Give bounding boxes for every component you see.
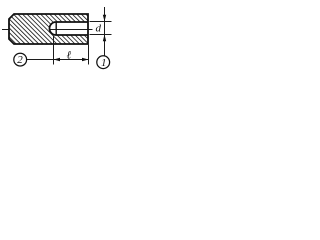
leader of balloon 2 xyxy=(27,59,54,61)
balloon 2 circle xyxy=(14,53,27,66)
body part 2 (sectioned block, hatched, chamfered left corners, hole for pin) xyxy=(9,14,88,44)
centerline (axis of pin and hole) xyxy=(2,29,93,31)
extension line from pin bottom edge xyxy=(90,34,112,36)
pin part 1 (inserted in hole, domed inner end, flush with right face) xyxy=(50,22,88,35)
extension line from pin top edge xyxy=(90,21,112,23)
balloon 1 circle xyxy=(97,56,110,69)
svg-text:2: 2 xyxy=(17,54,23,66)
arrowhead left of dimension l xyxy=(54,58,61,61)
body part 2 outline xyxy=(9,14,88,44)
pin dome-to-cylinder junction line xyxy=(55,22,57,35)
svg-text:ℓ: ℓ xyxy=(67,50,72,62)
extension line at hole bottom / pin left end (x=53) xyxy=(53,36,55,65)
svg-text:d: d xyxy=(96,23,102,35)
dimension line l (pin length / hole depth) xyxy=(54,59,89,61)
arrowhead pointing down at pin top edge xyxy=(103,15,106,22)
arrowhead pointing up at pin bottom edge xyxy=(103,35,106,42)
arrowhead right of dimension l xyxy=(82,58,89,61)
svg-text:1: 1 xyxy=(101,57,107,69)
extension line at right face (x=88) xyxy=(88,45,90,65)
dimension line d (vertical, outside arrows) and leader of balloon 1 xyxy=(104,7,106,56)
